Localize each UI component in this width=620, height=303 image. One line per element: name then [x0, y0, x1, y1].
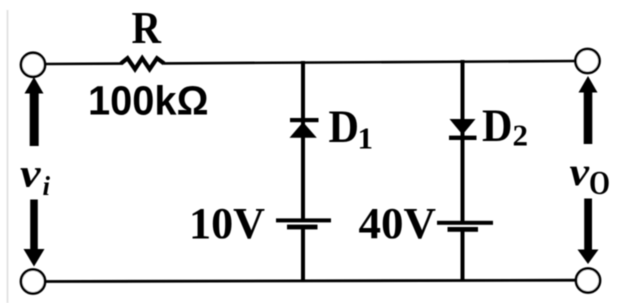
svg-text:D: D — [482, 101, 513, 152]
svg-text:10V: 10V — [189, 199, 265, 248]
arrow vo down — [578, 199, 599, 265]
diode D1 — [290, 118, 319, 138]
svg-text:2: 2 — [513, 118, 529, 153]
terminal top-left — [21, 53, 45, 77]
terminal bottom-left — [21, 270, 45, 294]
wire bottom — [44, 280, 578, 281]
resistor R — [121, 58, 164, 69]
battery V2 40V plates — [437, 221, 493, 232]
wire branch D1 vertical — [301, 61, 305, 220]
wire top-left segment — [44, 62, 122, 65]
wire branch D1 vertical lower — [301, 227, 305, 282]
battery V1 10V plates — [276, 218, 331, 229]
svg-text:100kΩ: 100kΩ — [88, 78, 209, 124]
scan edge artifact — [7, 10, 9, 303]
terminal top-right — [576, 49, 600, 73]
svg-text:O: O — [589, 165, 610, 202]
wire branch D2 vertical — [461, 60, 465, 222]
arrow vi up — [25, 77, 44, 146]
diode D2 — [449, 119, 477, 140]
arrow vo up — [579, 76, 598, 144]
svg-text:R: R — [132, 2, 162, 53]
svg-text:i: i — [43, 171, 51, 201]
svg-text:40V: 40V — [359, 199, 437, 248]
svg-text:v: v — [570, 149, 591, 194]
terminal bottom-right — [576, 269, 600, 293]
wire top-right segment — [164, 61, 578, 63]
arrow vi down — [24, 200, 45, 267]
svg-text:1: 1 — [358, 121, 374, 156]
wire branch D2 vertical lower — [461, 229, 465, 281]
svg-text:D: D — [329, 102, 360, 153]
svg-text:v: v — [20, 150, 42, 195]
